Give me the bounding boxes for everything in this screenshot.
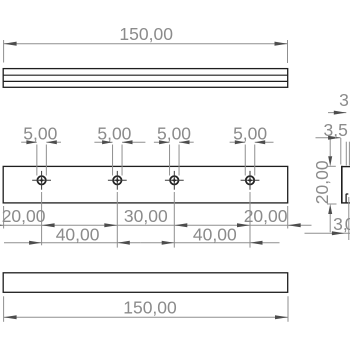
extension line hole 4 below front view <box>249 192 251 248</box>
svg-text:20,00: 20,00 <box>244 206 288 226</box>
svg-text:40,00: 40,00 <box>193 224 237 244</box>
svg-text:20,00: 20,00 <box>2 206 46 226</box>
svg-text:3: 3 <box>339 90 349 110</box>
dimension 3 side view <box>328 90 349 166</box>
dimension 150,00 top <box>4 24 288 63</box>
side view left edge <box>341 166 343 204</box>
front view outline <box>3 166 288 203</box>
extension line hole 3 below front view <box>173 192 175 248</box>
svg-text:5,00: 5,00 <box>157 124 191 144</box>
extension line right edge below front view <box>287 206 289 229</box>
svg-text:150,00: 150,00 <box>123 298 177 318</box>
hole 3 <box>165 171 184 190</box>
svg-text:5,00: 5,00 <box>23 124 57 144</box>
dimension 5,00 hole 4 <box>230 124 274 176</box>
side view inner horizontal edge <box>346 193 348 195</box>
hole 2 <box>108 171 127 190</box>
dimension 20,00 left <box>0 206 104 227</box>
dimension 40,00 right <box>140 224 279 244</box>
svg-text:40,00: 40,00 <box>56 224 100 244</box>
dimension 5,00 hole 2 <box>94 124 145 176</box>
dimension 5,00 hole 1 <box>21 124 61 176</box>
svg-text:5,00: 5,00 <box>233 124 267 144</box>
extension line left edge below front view <box>3 206 5 229</box>
svg-text:00: 00 <box>345 214 350 234</box>
svg-text:30,00: 30,00 <box>124 206 168 226</box>
dimension 20,00 side view vertical <box>312 139 337 232</box>
bottom view outline <box>3 273 288 293</box>
side view top edge <box>341 166 350 168</box>
svg-text:5,00: 5,00 <box>97 124 131 144</box>
side view bottom edge <box>341 202 350 204</box>
dimension 5,00 hole 3 <box>154 124 194 176</box>
dimension 40,00 left <box>4 224 140 244</box>
top view outline <box>3 69 288 88</box>
dimension 150,00 bottom <box>4 296 288 322</box>
dimension 3,00 side view <box>305 197 350 240</box>
svg-text:150,00: 150,00 <box>119 24 173 44</box>
dimension 30,00 <box>104 206 237 227</box>
extension line hole 1 below front view <box>41 192 43 245</box>
svg-text:20,00: 20,00 <box>312 160 332 204</box>
side view inner vertical edge <box>345 194 347 203</box>
extension line hole 2 below front view <box>116 192 118 248</box>
top view inner edge line 1 <box>3 74 288 76</box>
hole 4 <box>241 171 260 190</box>
dimension 3,5 side view <box>316 120 348 165</box>
svg-text:3,5: 3,5 <box>324 120 348 140</box>
hole 1 <box>32 171 51 190</box>
top view inner edge line 2 <box>3 80 288 82</box>
dimension 20,00 right <box>237 206 312 227</box>
